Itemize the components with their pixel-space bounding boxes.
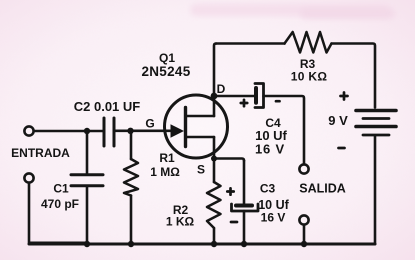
svg-text:SALIDA: SALIDA — [299, 182, 346, 196]
svg-text:2N5245: 2N5245 — [141, 64, 190, 79]
capacitor C1 branch wire — [86, 131, 89, 173]
junction node S — [211, 156, 217, 162]
svg-text:C3: C3 — [260, 182, 276, 196]
capacitor C3 plate straight — [236, 204, 252, 208]
terminal SALIDA lower — [299, 215, 308, 224]
wire lower terminal to ground rail — [29, 183, 87, 243]
wire C2 to gate — [114, 130, 172, 133]
terminal ENTRADA upper — [24, 126, 33, 135]
wire R2 to ground rail — [213, 228, 216, 244]
ghost print bleed top — [190, 4, 390, 16]
capacitor C4 plate straight — [254, 88, 258, 103]
top wire to R3 — [216, 42, 285, 45]
wire SALIDA lower to ground rail — [303, 225, 306, 244]
wire drain node to C4 — [214, 95, 254, 98]
transistor Q1 body — [165, 95, 228, 158]
svg-text:ENTRADA: ENTRADA — [11, 146, 70, 160]
junction node C3 ground — [241, 241, 247, 247]
svg-text:G: G — [145, 117, 154, 131]
resistor R2 — [207, 182, 221, 228]
transistor Q1 gate arrow — [171, 124, 185, 138]
transistor Q1 source connection — [186, 136, 215, 139]
battery plus sign — [341, 93, 348, 100]
battery B1 plate short bottom — [363, 134, 389, 137]
junction node C1 ground — [84, 241, 90, 247]
wire battery to ground rail — [374, 137, 377, 245]
wire C3 branch down — [243, 161, 246, 205]
wire C4 to SALIDA upper — [264, 96, 305, 164]
C4 plus sign — [241, 100, 247, 106]
battery B1 plate short — [363, 117, 389, 120]
battery minus sign — [339, 147, 345, 150]
terminal ENTRADA lower — [24, 173, 33, 182]
transistor Q1 drain connection — [186, 115, 215, 118]
C3 minus sign — [231, 221, 237, 224]
junction node R2 ground — [211, 241, 217, 247]
wire C3 to ground rail — [243, 211, 246, 244]
wire source node to R2 — [213, 159, 216, 183]
battery B1 plate long — [356, 125, 396, 129]
C3 plus sign — [227, 188, 233, 194]
svg-text:C1: C1 — [53, 182, 69, 196]
svg-text:1 MΩ: 1 MΩ — [150, 165, 180, 179]
junction node SALIDA ground — [301, 241, 307, 247]
svg-text:16 V: 16 V — [261, 211, 286, 225]
junction node at R1 tap — [127, 128, 133, 134]
capacitor C3 plate bracket — [232, 204, 259, 211]
capacitor C1 plates — [71, 173, 103, 176]
svg-text:9 V: 9 V — [328, 113, 348, 128]
svg-text:10 KΩ: 10 KΩ — [291, 70, 328, 84]
wire input to C2 — [34, 130, 103, 133]
svg-text:470 pF: 470 pF — [41, 197, 79, 211]
capacitor C2 plates — [103, 118, 106, 146]
junction node D — [211, 93, 218, 100]
wire source node to C3 — [214, 159, 244, 161]
svg-text:D: D — [217, 82, 226, 96]
wire R1 to ground rail — [130, 196, 133, 245]
svg-text:Q1: Q1 — [159, 51, 175, 65]
capacitor C4 plate bracket — [255, 84, 264, 108]
resistor R1 — [124, 159, 138, 196]
svg-text:C2 0.01 UF: C2 0.01 UF — [74, 99, 141, 114]
wire R3 to battery — [332, 44, 376, 108]
svg-text:16 V: 16 V — [255, 142, 285, 157]
resistor R3 — [285, 32, 332, 53]
transistor Q1 gate bar — [184, 108, 187, 147]
battery B1 plate long top — [356, 109, 396, 113]
wire R1 branch — [130, 131, 133, 159]
terminal SALIDA upper — [299, 164, 308, 173]
source lead down — [213, 137, 216, 159]
svg-text:1 KΩ: 1 KΩ — [166, 215, 195, 229]
C4 minus sign — [276, 100, 280, 103]
svg-text:R1: R1 — [159, 151, 175, 165]
svg-text:S: S — [197, 163, 205, 177]
junction node at C1 tap — [84, 128, 90, 134]
wire C1 to ground rail — [86, 186, 89, 244]
drain lead up to top wire — [214, 44, 216, 117]
ground rail — [29, 243, 375, 246]
junction node R1 ground — [128, 241, 134, 247]
